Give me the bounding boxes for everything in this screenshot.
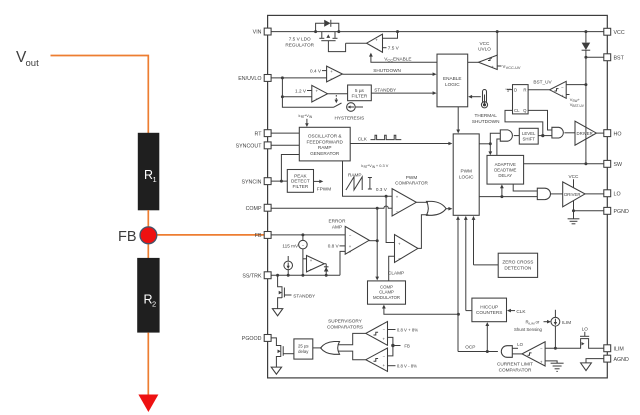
wire PGND line [572, 201, 604, 213]
diode D3 SS buffer output [324, 264, 329, 276]
op-amp U8 PWM comparator [392, 189, 416, 216]
svg-text:DETECTION: DETECTION [504, 265, 531, 270]
pin HO [604, 130, 622, 138]
svg-text:ENABLE: ENABLE [443, 76, 462, 81]
wire ILIM sense line with series FET [545, 339, 604, 350]
wire G2 output to delay block [313, 347, 322, 349]
IC boundary [268, 15, 608, 378]
svg-text:REGULATOR: REGULATOR [285, 42, 314, 47]
wire SS to U9 lower plus input [340, 251, 345, 275]
svg-text:7.5 V: 7.5 V [388, 46, 400, 51]
svg-text:SYNCOUT: SYNCOUT [236, 144, 263, 150]
block ENABLE LOGIC [437, 54, 468, 107]
wire OCP line to AND A4 [458, 350, 498, 353]
op-amp U6 BST_UV comparator [550, 81, 567, 98]
svg-text:CLK: CLK [516, 309, 526, 314]
wire U6 output to latch R input [528, 89, 550, 91]
ground AGND analog (hatched) [551, 363, 564, 371]
wire A1 output to level shift [514, 135, 520, 137]
svg-text:DEADTIME: DEADTIME [494, 168, 516, 173]
svg-text:FPWM: FPWM [317, 186, 331, 191]
svg-text:CLK: CLK [358, 137, 368, 142]
wire node up to AND A1 top input [490, 133, 500, 144]
wire U8 output to G1 [416, 201, 428, 203]
resistor R2 [137, 258, 159, 333]
block ADAPTIVE DEADTIME DELAY [487, 155, 524, 184]
label kRT x VIN with arrow into oscillator [299, 113, 313, 127]
svg-text:FILTER: FILTER [351, 94, 367, 99]
transistor Q3 LO blanking FET gate [580, 327, 589, 337]
wire FB node to FB pin (orange) [148, 234, 264, 236]
label 0.8 V + 8% reference [388, 327, 419, 332]
wire SYNCIN branch to oscillator [280, 155, 299, 183]
wire SHUTDOWN U3 output to enable logic [342, 68, 436, 76]
label RILIM or Shunt Sensing with arrow [514, 320, 551, 332]
wire U11 output to G1 lower input [418, 215, 428, 249]
svg-text:COMP: COMP [246, 206, 262, 212]
label VSW plus VBST-UV [566, 95, 585, 109]
wire PGOOD pin to Q4 [271, 338, 281, 346]
svg-text:RAMP: RAMP [318, 145, 332, 150]
wire A3 output to LO driver [551, 193, 563, 195]
wire U15 output to G2 [338, 333, 366, 344]
wire EN/UVLO pin to U3 minus input [271, 77, 327, 79]
wire LO into A4 top input [512, 342, 523, 348]
svg-text:SS/TRK: SS/TRK [242, 273, 262, 279]
svg-text:PWM: PWM [460, 169, 472, 174]
wire clamp modulator to U11 minus input [389, 256, 395, 281]
resistor R1 [138, 133, 160, 211]
block ZERO CROSS DETECTION [498, 253, 537, 277]
and-gate A4 OCP gating (left pointing) [501, 346, 512, 358]
driver U12 HO gate driver [575, 121, 596, 145]
svg-text:7.5 V LDO: 7.5 V LDO [289, 37, 311, 42]
wire U4 output to 5us filter [328, 93, 348, 95]
clock waveform glyph [371, 135, 402, 139]
pin SYNCIN [241, 178, 271, 186]
svg-text:115 mV: 115 mV [282, 244, 299, 249]
wire LO driver to LO pin [585, 193, 604, 195]
ground arrow (red) [138, 395, 158, 413]
svg-text:5 µs: 5 µs [355, 88, 365, 93]
label PWM COMPARATOR [395, 175, 428, 186]
label VVCC-UV reference [497, 64, 521, 70]
svg-text:FB: FB [255, 233, 262, 239]
label VCC LO driver supply [569, 174, 580, 188]
label kRT x VIN + 0.3 V [361, 163, 388, 169]
label 0.8 V - 8% reference [388, 364, 418, 369]
svg-text:MODULATOR: MODULATOR [373, 295, 400, 300]
wire latch CL to level shift node [505, 110, 543, 135]
block COMP CLAMP MODULATOR [368, 281, 406, 304]
svg-text:OCP: OCP [465, 345, 475, 350]
wire level shift output node to AND A2 [538, 134, 552, 137]
svg-text:ADAPTIVE: ADAPTIVE [495, 162, 516, 167]
svg-text:CLAMP: CLAMP [379, 290, 394, 295]
svg-text:IN: IN [309, 115, 313, 119]
wire VCC ENABLE with up arrow [369, 53, 437, 63]
wire hiccup feedback into comp clamp modulator [382, 305, 460, 316]
op-amp U5 VCC UVLO comparator [479, 55, 498, 70]
label THERMAL SHUTDOWN [472, 113, 500, 124]
label ERROR AMP [329, 219, 347, 230]
svg-text:BST_UV: BST_UV [533, 80, 552, 85]
op-amp U9 error amplifier [345, 226, 369, 254]
current source I1 hysteresis [347, 103, 363, 112]
svg-text:ZERO CROSS: ZERO CROSS [502, 260, 533, 265]
wire U16 output to G2 [338, 351, 366, 360]
svg-text:EN/UVLO: EN/UVLO [238, 76, 261, 82]
wire COMP pin to U8 minus input [271, 206, 392, 210]
wire BST rail to U6 top input [566, 83, 587, 86]
svg-text:VCC: VCC [569, 174, 580, 179]
svg-text:+ 0.3 V: + 0.3 V [376, 163, 389, 168]
svg-text:0.4 V: 0.4 V [310, 68, 322, 73]
svg-text:0.8 V: 0.8 V [328, 244, 340, 249]
svg-text:FILTER: FILTER [292, 184, 308, 189]
svg-text:+: + [578, 97, 581, 102]
ground PGND (hatched) [568, 211, 580, 224]
svg-text:SHIFT: SHIFT [522, 137, 535, 142]
op-amp U4 standby comparator [312, 85, 328, 102]
svg-text:25 µs: 25 µs [298, 343, 309, 348]
and-gate A3 LO gating [537, 188, 550, 199]
svg-text:DETECT: DETECT [291, 179, 310, 184]
op-amp U2 7.5V LDO comparator [367, 34, 383, 52]
svg-text:ILIM: ILIM [614, 347, 624, 353]
svg-text:UVLO: UVLO [478, 47, 491, 52]
latch U7 BST SR latch [513, 85, 529, 114]
wire HO driver to HO pin [596, 132, 603, 134]
pin SS/TRK [242, 272, 271, 280]
pin RT [255, 130, 272, 138]
wire R1 to R2 through FB node (orange) [147, 210, 149, 259]
svg-text:RAMP: RAMP [348, 172, 362, 177]
wire OCP branch up into hiccup counters [485, 322, 489, 351]
wire LO node up into adaptive deadtime bottom [500, 184, 504, 196]
pin BST [604, 54, 625, 62]
op-amp U15 PGOOD upper comparator [366, 322, 388, 346]
svg-text:HO: HO [614, 131, 622, 137]
transistor Q2 SS discharge [278, 275, 292, 308]
wire AGND pin to ground triangle [586, 359, 604, 363]
svg-text:1: 1 [153, 175, 157, 184]
svg-text:PEAK: PEAK [294, 173, 307, 178]
wire A2 output to HO driver [564, 132, 575, 134]
svg-text:CLAMP: CLAMP [388, 270, 404, 275]
wire U5 output to enable logic [468, 61, 479, 63]
wire thermal shutdown to enable logic [468, 95, 481, 99]
wire SW line [524, 162, 604, 165]
wire G1 output to PWM logic [446, 207, 452, 211]
and-gate A2 HO driver input [552, 127, 563, 138]
wire RT pin to oscillator [271, 132, 299, 134]
svg-text:OSCILLATOR &: OSCILLATOR & [308, 134, 343, 139]
label SUPERVISORY COMPARATORS [327, 318, 363, 329]
wire FB pin to U9 minus input [271, 233, 345, 236]
svg-text:DRIVER: DRIVER [564, 192, 580, 197]
svg-text:AGND: AGND [614, 357, 629, 363]
svg-text:CURRENT LIMIT: CURRENT LIMIT [497, 362, 533, 367]
block LEVEL SHIFT [519, 128, 538, 144]
wire node down into adaptive deadtime top [488, 144, 492, 155]
svg-text:0.8 V + 8%: 0.8 V + 8% [397, 327, 418, 332]
block 25 us delay [294, 339, 313, 359]
wire adaptive deadtime to AND A1 bottom input [497, 139, 501, 155]
wire R2 to ground arrow (orange) [147, 333, 149, 397]
wire adaptive deadtime to AND A3 top input [513, 184, 537, 191]
svg-text:ERROR: ERROR [329, 219, 347, 224]
pin VCC [604, 28, 625, 36]
wire PWM logic bottom input 1 (OCP) [456, 216, 460, 352]
svg-text:LOGIC: LOGIC [445, 82, 460, 87]
svg-text:LEVEL: LEVEL [522, 131, 536, 136]
transistor Q4 PGOOD open drain [276, 345, 294, 367]
wire SYNCOUT pin to oscillator [271, 144, 299, 146]
svg-text:DRIVER: DRIVER [577, 131, 593, 136]
op-amp U16 PGOOD lower comparator [366, 348, 388, 371]
current source I4 ILIM [551, 310, 571, 348]
pin VIN [253, 28, 271, 36]
pin PGOOD [242, 335, 271, 343]
block HICCUP COUNTERS [472, 298, 507, 322]
svg-text:FB: FB [118, 229, 137, 245]
svg-text:SW: SW [614, 162, 623, 168]
wire enable logic to PWM logic [456, 107, 460, 134]
diode D1 LDO bypass [316, 20, 339, 32]
wire SS/TRK pin net [271, 274, 340, 277]
svg-text:LO: LO [614, 192, 621, 198]
svg-text:COMPARATORS: COMPARATORS [327, 324, 363, 329]
svg-text:AMP: AMP [332, 224, 342, 229]
wire EN node to U4 minus input [281, 78, 312, 98]
wire hysteresis switch leg [282, 97, 341, 108]
svg-text:CL: CL [514, 108, 520, 113]
svg-text:2: 2 [152, 300, 156, 309]
label VCC UVLO [478, 41, 491, 52]
or-gate G2 PGOOD or (left pointing) [321, 342, 340, 355]
svg-text:HYSTERESIS: HYSTERESIS [335, 115, 365, 120]
svg-text:LO: LO [582, 327, 589, 332]
svg-text:out: out [26, 58, 40, 69]
svg-text:PGND: PGND [614, 209, 629, 215]
pin PGND [604, 207, 629, 215]
label 7.5 V reference [383, 46, 400, 51]
wire rail to U5 top input [496, 32, 498, 55]
label 0.4 V reference [310, 68, 327, 73]
op-amp U10 SS track buffer [303, 256, 324, 272]
wire CLK oscillator to PWM logic [350, 137, 452, 146]
wire U2 output to Q1 gate [346, 42, 367, 44]
svg-text:or: or [536, 320, 540, 325]
node Vout label [16, 49, 39, 69]
svg-text:BST: BST [614, 56, 625, 62]
svg-text:COMPARATOR: COMPARATOR [395, 181, 428, 186]
current source I3 SS charge [284, 256, 293, 275]
svg-text:0.8 V - 8%: 0.8 V - 8% [397, 364, 417, 369]
ground AGND pin (open triangle) [581, 363, 592, 371]
svg-text:VCC-UV: VCC-UV [506, 65, 521, 70]
wire FPWM output arrow [314, 180, 332, 192]
junction EN node [281, 76, 284, 79]
label 7.5 V LDO REGULATOR [285, 37, 314, 48]
svg-text:LO: LO [517, 342, 523, 347]
wire ramp oscillator to PWM comparator [343, 161, 393, 198]
svg-text:SHUTDOWN: SHUTDOWN [373, 68, 401, 73]
pin FB [255, 232, 271, 239]
svg-text:SUPERVISORY: SUPERVISORY [328, 318, 363, 323]
diode D2 BST [582, 32, 591, 164]
svg-text:ILIM: ILIM [562, 320, 571, 325]
wire U2 plus input to rail [383, 32, 398, 39]
svg-text:LOGIC: LOGIC [459, 174, 474, 179]
op-amp U3 shutdown comparator [327, 66, 343, 82]
wire CLK into hiccup counters [507, 309, 526, 314]
svg-text:HICCUP: HICCUP [480, 304, 498, 309]
svg-text:COMPARATOR: COMPARATOR [499, 367, 532, 372]
junction dots on VIN/VCC rail [314, 30, 587, 33]
pin EN/UVLO [238, 75, 271, 83]
block OSCILLATOR and FEEDFORWARD RAMP GENERATOR [299, 127, 350, 161]
current source I2 115 mV offset [282, 235, 307, 275]
svg-text:VIN: VIN [253, 30, 262, 36]
pin SW [604, 160, 622, 168]
svg-text:COMP: COMP [380, 284, 393, 289]
wire U14 plus input to ground [545, 361, 557, 363]
wire FB net supervisory node [388, 337, 411, 356]
thermometer symbol thermal sensor [481, 90, 487, 108]
wire latch Q to AND gate A2 [528, 110, 552, 130]
ramp sawtooth glyph [346, 177, 372, 190]
ground PGOOD (open triangle) [271, 367, 281, 374]
wire STANDBY filter output to enable logic [371, 88, 436, 95]
svg-text:ILIM: ILIM [529, 322, 535, 326]
svg-text:DELAY: DELAY [498, 173, 512, 178]
wire SYNCIN pin to peak detect filter [271, 180, 287, 182]
wire PWM logic to HO path node [479, 142, 492, 145]
wire VIN/VCC rail [271, 31, 604, 33]
wire PWM logic bottom input 2 (hiccup) [464, 216, 472, 311]
svg-text:THERMAL: THERMAL [474, 113, 497, 118]
svg-text:VCC: VCC [480, 41, 491, 46]
svg-text:FEEDFORWARD: FEEDFORWARD [306, 139, 343, 144]
svg-text:1.2 V: 1.2 V [295, 88, 307, 93]
svg-text:0.3 V: 0.3 V [376, 187, 388, 192]
pin ILIM [604, 345, 624, 353]
svg-text:SYNCIN: SYNCIN [241, 179, 261, 185]
svg-text:RT: RT [255, 131, 263, 137]
pin LO [604, 190, 621, 198]
svg-text:SHUTDOWN: SHUTDOWN [472, 119, 500, 124]
label 1.2 V reference [295, 88, 312, 93]
wire COMP node vertical into comp clamp modulator [375, 208, 379, 280]
pin AGND [604, 355, 629, 363]
wire U14 output to A4 [512, 353, 522, 355]
svg-text:STANDBY: STANDBY [293, 293, 316, 298]
label CURRENT LIMIT COMPARATOR [497, 362, 533, 373]
svg-text:PWM: PWM [406, 175, 418, 180]
svg-text:VCC: VCC [614, 30, 625, 36]
svg-text:FB: FB [404, 344, 410, 349]
block PWM LOGIC [453, 134, 479, 215]
wire error amp output node [369, 239, 379, 242]
block PEAK DETECT FILTER [287, 170, 313, 193]
svg-text:STANDBY: STANDBY [374, 88, 397, 93]
transistor Q1 LDO pass FET [319, 32, 345, 52]
op-amp U11 clamp comparator [395, 235, 418, 263]
wire ramp branch to clamp comparator [386, 196, 394, 242]
op-amp U14 current limit comparator [522, 342, 545, 366]
svg-text:ENABLE: ENABLE [393, 56, 412, 61]
dashed arrow filter to switch [335, 95, 339, 103]
or-gate G1 PWM or [427, 201, 447, 215]
wire BST pin stub [584, 56, 603, 59]
svg-text:BST-UV: BST-UV [572, 104, 584, 108]
svg-text:COUNTERS: COUNTERS [476, 310, 502, 315]
label 0.8 V reference [328, 244, 345, 249]
pin COMP [246, 204, 272, 212]
driver U13 LO gate driver [563, 182, 585, 207]
block 5 us FILTER [348, 85, 372, 101]
ground SS (open triangle) [272, 309, 282, 316]
svg-text:D: D [514, 88, 517, 93]
svg-text:R: R [523, 88, 526, 93]
svg-text:GENERATOR: GENERATOR [310, 151, 340, 156]
node FB junction (red dot) [140, 227, 157, 244]
pin SYNCOUT [236, 142, 272, 150]
wire PWM logic to LO path [479, 195, 537, 198]
wire PWM logic bottom input 3 (zero cross) [472, 216, 499, 265]
svg-text:PGOOD: PGOOD [242, 336, 262, 342]
label logic 1 input [505, 88, 512, 93]
wire Vout to R1 (orange) [51, 56, 149, 134]
svg-text:delay: delay [298, 349, 309, 354]
svg-text:Shunt Sensing: Shunt Sensing [514, 327, 543, 332]
and-gate A1 HO gating [500, 130, 512, 141]
